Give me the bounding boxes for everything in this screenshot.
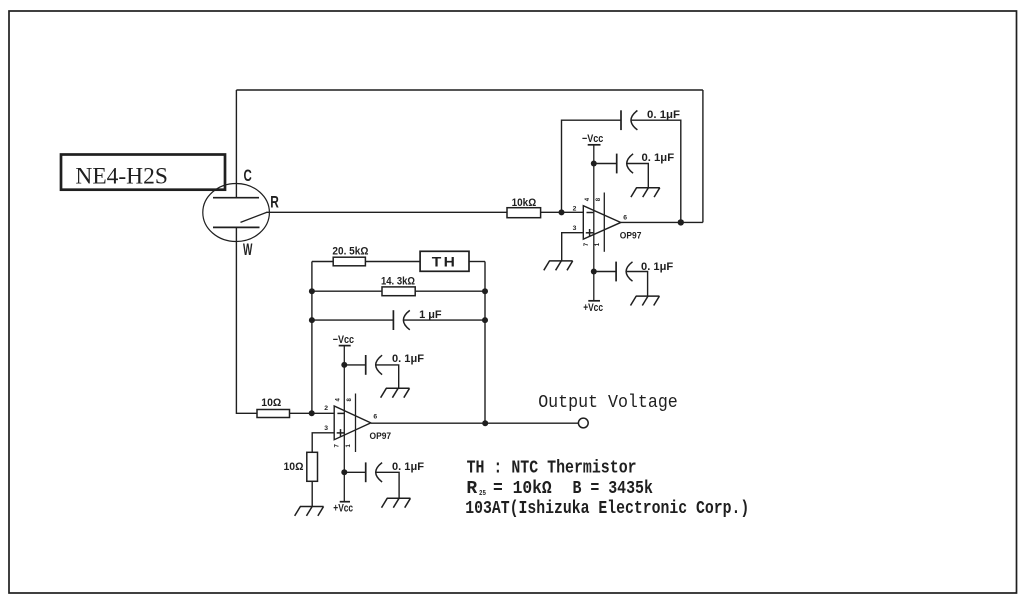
ground (U2 pin3)	[295, 507, 324, 516]
svg-text:−Vcc: −Vcc	[333, 334, 354, 346]
note line 2: R25 = 10k B = 3435k	[466, 479, 653, 499]
note line 1: TH NTC Thermistor	[467, 459, 637, 479]
wire right feedback vertical	[702, 90, 704, 222]
svg-text:10Ω: 10Ω	[284, 461, 304, 473]
svg-text:NE4-H2S: NE4-H2S	[75, 164, 167, 189]
wire R terminal to R1	[267, 211, 508, 213]
svg-text:+Vcc: +Vcc	[583, 302, 603, 314]
resistor R4 14.3k	[381, 275, 415, 295]
ground (U1 V- bypass)	[631, 188, 660, 197]
-Vcc terminal bar (U2)	[339, 345, 351, 347]
svg-text:B = 3435k: B = 3435k	[573, 479, 654, 499]
wire U2 pin3 to R5	[312, 433, 334, 453]
svg-text:0. 1μF: 0. 1μF	[642, 152, 675, 164]
svg-text:3: 3	[324, 425, 328, 432]
svg-text:R: R	[270, 194, 279, 212]
U2 pin 3 number	[324, 425, 328, 432]
U1 name OP97	[620, 230, 642, 241]
node row3 left	[309, 317, 315, 323]
svg-text:10kΩ: 10kΩ	[512, 197, 537, 209]
svg-text:OP97: OP97	[370, 431, 392, 442]
node output junction	[482, 420, 488, 426]
wire R1 to U1 pin2	[541, 211, 584, 213]
wire R3 to TH	[365, 261, 420, 263]
U2 pin 4 number	[336, 398, 342, 402]
thermistor TH box	[420, 251, 469, 271]
ground (U1 V+ bypass)	[631, 296, 660, 305]
svg-text:3: 3	[573, 225, 577, 232]
svg-text:0. 1μF: 0. 1μF	[392, 353, 424, 365]
node U1 inverting input	[559, 209, 565, 215]
ground (U2 V- bypass)	[381, 388, 410, 397]
wire row3 right	[404, 319, 485, 321]
U2 pin 6 number	[373, 414, 377, 421]
svg-text:20. 5kΩ: 20. 5kΩ	[332, 245, 368, 257]
wire U1 V+ bypass	[594, 271, 616, 273]
svg-text:0. 1μF: 0. 1μF	[392, 461, 424, 473]
terminal label C	[244, 167, 252, 185]
resistor R3 20.5k	[332, 245, 368, 265]
+Vcc label (U2)	[333, 502, 353, 514]
gas sensor B1 body (electrochemical cell)	[203, 184, 270, 242]
wire U2 V+ bypass	[344, 471, 365, 473]
svg-text:TH: TH	[432, 255, 457, 270]
U2 pin 7 number	[335, 444, 341, 448]
U1 supply rail line (pins 4/7)	[593, 145, 595, 301]
wire R5 to ground	[311, 481, 313, 506]
wire U2 V- bypass	[344, 364, 365, 366]
wire feedback right vertical	[484, 262, 486, 424]
wire C terminal up	[235, 90, 237, 198]
Output Voltage label	[538, 393, 678, 413]
node U2 V- bypass	[341, 362, 347, 368]
capacitor C6 0.1uF (U2 V+ bypass)	[366, 461, 425, 482]
wire row2	[312, 290, 485, 292]
wire top feedback horizontal	[236, 89, 703, 91]
wire feedback cap up-left	[562, 120, 622, 212]
svg-text:TH : NTC Thermistor: TH : NTC Thermistor	[467, 459, 637, 479]
+Vcc label (U1)	[583, 302, 603, 314]
svg-text:2: 2	[573, 205, 577, 212]
U1 pin 1 number	[595, 242, 601, 246]
ground (U2 V+ bypass)	[382, 498, 411, 507]
+Vcc terminal bar (U2)	[340, 501, 350, 503]
U1 trim rail line (pins 8/1)	[603, 193, 605, 252]
U2 supply rail line (pins 4/7)	[343, 346, 345, 502]
U2 plus sign (pin3)	[337, 429, 345, 437]
svg-text:+Vcc: +Vcc	[333, 502, 353, 514]
wire W terminal down	[236, 227, 257, 413]
wire R2 to U2 pin2	[290, 412, 335, 414]
output terminal circle	[578, 418, 588, 428]
wire U1 V- bypass	[594, 163, 617, 165]
wire row1 left	[312, 261, 333, 263]
svg-text:103AT(Ishizuka Electronic Corp: 103AT(Ishizuka Electronic Corp.)	[465, 499, 749, 519]
op-amp U2 OP97 triangle	[334, 406, 371, 440]
wire TH to right vertical	[469, 261, 485, 263]
sensor bottom electrode plate (W)	[213, 226, 260, 228]
sensor label box NE4-H2S	[61, 155, 225, 190]
svg-text:25: 25	[479, 490, 486, 498]
terminal label W	[243, 241, 253, 259]
svg-text:Output Voltage: Output Voltage	[538, 393, 678, 413]
U2 pin 8 number	[347, 398, 353, 402]
node U1 V+ bypass	[591, 269, 597, 275]
svg-text:6: 6	[373, 414, 377, 421]
node U2 inverting input	[309, 410, 315, 416]
U1 minus sign (pin2)	[587, 212, 594, 214]
svg-text:6: 6	[623, 215, 627, 222]
svg-text:10Ω: 10Ω	[261, 397, 281, 409]
capacitor C1 0.1uF (U1 feedback)	[621, 109, 680, 130]
capacitor C4 1uF (U2 feedback)	[393, 309, 441, 330]
resistor R1 10k	[507, 197, 541, 218]
node U2 V+ bypass	[341, 469, 347, 475]
node U1 output junction	[678, 219, 684, 225]
terminal label R	[270, 194, 279, 212]
U2 pin 1 number	[346, 444, 352, 448]
U1 pin 3 number	[573, 225, 577, 232]
U2 minus sign (pin2)	[337, 412, 344, 414]
svg-text:14. 3kΩ: 14. 3kΩ	[381, 275, 415, 287]
U1 pin 8 number	[596, 197, 602, 201]
svg-text:= 10kΩ: = 10kΩ	[493, 479, 552, 499]
note line 3: 103AT Ishizuka Electronic Corp.	[465, 499, 749, 519]
-Vcc terminal bar (U1)	[588, 144, 601, 146]
wire U1 pin3 to ground	[562, 233, 584, 261]
svg-text:OP97: OP97	[620, 230, 642, 241]
wire feedback cap to output	[632, 120, 681, 222]
wire C5 to ground	[376, 365, 398, 388]
sensor top electrode plate (C)	[213, 197, 259, 199]
U2 name OP97	[370, 431, 392, 442]
-Vcc label (U1)	[582, 133, 603, 145]
svg-text:0. 1μF: 0. 1μF	[647, 109, 680, 121]
U1 pin 2 number	[573, 205, 577, 212]
svg-text:C: C	[244, 167, 252, 185]
ground (U1 pin3)	[544, 261, 573, 270]
U2 pin 2 number	[324, 405, 328, 412]
U2 trim rail line (pins 8/1)	[355, 394, 357, 453]
U1 pin 6 number	[623, 215, 627, 222]
wire U1 output	[621, 221, 703, 223]
wire row3 left	[312, 319, 394, 321]
sensor reference electrode diagonal (R)	[241, 212, 268, 222]
op-amp U1 OP97 triangle	[583, 206, 621, 240]
wire C2 to ground	[627, 164, 648, 188]
+Vcc terminal bar (U1)	[588, 300, 600, 302]
svg-text:2: 2	[324, 405, 328, 412]
wire feedback left vertical	[311, 262, 313, 414]
svg-text:W: W	[243, 241, 253, 259]
wire C6 to ground	[376, 472, 399, 498]
resistor R2 10 ohm (input)	[257, 397, 290, 418]
wire C3 to ground	[627, 272, 648, 297]
node U1 V- bypass	[591, 161, 597, 167]
svg-text:−Vcc: −Vcc	[582, 133, 603, 145]
svg-text:R: R	[466, 479, 477, 499]
capacitor C2 0.1uF (U1 V- bypass)	[617, 152, 675, 173]
capacitor C5 0.1uF (U2 V- bypass)	[366, 353, 425, 375]
node row3 right	[482, 317, 488, 323]
capacitor C3 0.1uF (U1 V+ bypass)	[616, 261, 673, 281]
wire U2 output	[371, 422, 579, 424]
resistor R5 10 ohm (vertical)	[284, 452, 318, 481]
node row2 right	[482, 288, 488, 294]
node row2 left	[309, 288, 315, 294]
U1 plus sign (pin3)	[586, 229, 594, 237]
-Vcc label (U2)	[333, 334, 354, 346]
U1 pin 4 number	[585, 197, 591, 201]
U1 pin 7 number	[584, 242, 590, 246]
